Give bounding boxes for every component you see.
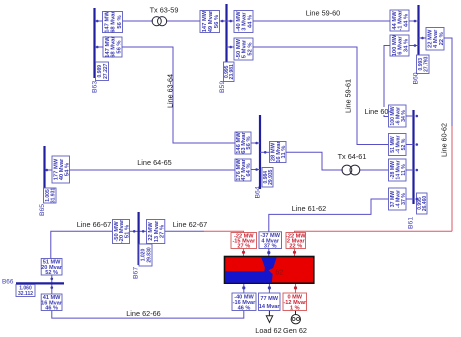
voltage box B67 (1.020 29.830) xyxy=(139,244,152,266)
svg-text:23.981: 23.981 xyxy=(229,64,235,80)
svg-text:51 %: 51 % xyxy=(125,225,131,238)
svg-text:B63: B63 xyxy=(92,81,99,93)
svg-text:Tx 64-61: Tx 64-61 xyxy=(338,152,367,161)
wire B64 stub upper xyxy=(251,142,260,144)
field B60 line 60-61 (100 MW 6 Mvar 34%) xyxy=(390,35,409,56)
svg-text:Line 62-66: Line 62-66 xyxy=(126,309,161,318)
field B64 line 64-65 (176 MW 47 Mvar 64%) xyxy=(235,159,251,181)
svg-text:32.112: 32.112 xyxy=(18,291,33,297)
svg-text:56 %: 56 % xyxy=(117,15,123,28)
node B63 upper xyxy=(96,20,99,23)
wire Line 59-61 xyxy=(253,47,389,145)
field B59 line 59-60 (-40 MW 3 Mvar 44%) xyxy=(234,11,253,33)
wire Tx 63-59 left segment xyxy=(123,20,154,22)
wire Line 64-65 xyxy=(70,169,236,171)
voltage box B61 (0.995 26.460) xyxy=(417,193,428,214)
wire B59 stub left xyxy=(220,20,227,22)
svg-text:52 %: 52 % xyxy=(248,42,254,55)
voltage box B65 (1.005 31.931) xyxy=(44,188,57,203)
svg-text:Load 62: Load 62 xyxy=(255,326,281,335)
svg-text:54 %: 54 % xyxy=(64,163,70,176)
svg-text:B61: B61 xyxy=(408,217,415,229)
wire B59 stub right lower xyxy=(227,46,235,48)
transformer Tx 64-61 xyxy=(342,165,352,175)
node B61 3 xyxy=(416,169,419,172)
field B61 tx side (-28 MW 14 Mvar 11%) xyxy=(389,159,407,181)
node B61 4 xyxy=(416,198,419,201)
wire Line 62-67 blue part xyxy=(165,230,204,232)
wire B67 left stub xyxy=(130,230,139,232)
svg-text:44 %: 44 % xyxy=(248,15,254,28)
bus 62 blue flow top wedge xyxy=(261,257,276,267)
wire bus62 field1 to bus62 xyxy=(243,249,245,257)
node B59 right upper xyxy=(229,20,232,23)
bus 62 red chevron notch xyxy=(269,266,277,278)
wire B60 stub upper xyxy=(409,20,419,22)
field gen 62 (0 MW -12 Mvar 1%) xyxy=(283,293,307,311)
node B59 right lower xyxy=(229,46,232,49)
svg-text:27 %: 27 % xyxy=(160,225,166,238)
wire B61 stub 3 xyxy=(406,169,414,171)
svg-text:22 %: 22 % xyxy=(289,244,302,250)
field B64 line 63-64 (146 MW 63 Mvar 56%) xyxy=(235,132,251,154)
bus B66 xyxy=(16,282,64,284)
wire B66 field1 to bus xyxy=(51,275,53,283)
bus B63 xyxy=(93,8,95,78)
field B59 line 59-61 (-50 MW 5 Mvar 52%) xyxy=(234,38,253,60)
node B67 right xyxy=(142,230,145,233)
bus B59 xyxy=(225,4,227,80)
node B64 upper xyxy=(255,142,258,145)
wire Tx 64-61 to B61 xyxy=(359,169,389,171)
field B63 line1 (147 MW 68 Mvar 56%) xyxy=(103,12,123,33)
svg-text:62: 62 xyxy=(275,268,283,277)
svg-text:52 %: 52 % xyxy=(45,270,58,276)
bus B67 xyxy=(138,212,140,265)
voltage box B64 (0.984 29.935) xyxy=(262,168,273,188)
field load 62 (77 MW 14 Mvar) xyxy=(259,293,281,311)
field B67 line 62-67 (22 MW 13 Mvar 27%) xyxy=(147,220,165,244)
node B60 left upper xyxy=(414,20,417,23)
bus 62 blue flow vertical band xyxy=(263,267,273,282)
bus B60 xyxy=(417,5,419,73)
wire B63 stub lower xyxy=(96,46,104,48)
svg-text:77 MW: 77 MW xyxy=(260,296,278,302)
voltage box B63 (0.989 27.227) xyxy=(96,62,109,81)
wire B60 stub lower xyxy=(409,45,419,47)
wire B61 stub 1 xyxy=(406,115,414,117)
transformer Tx 63-59 xyxy=(152,17,161,26)
wire bus62 to fieldA xyxy=(243,284,245,294)
svg-text:B64: B64 xyxy=(255,186,262,198)
node B64 right xyxy=(264,151,267,154)
wire Line 60-62 upper blue xyxy=(444,38,452,126)
field B66 line 62-66 (41 MW 16 Mvar 46%) xyxy=(41,294,62,311)
wire bus62 to fieldB xyxy=(268,284,270,294)
svg-text:B59: B59 xyxy=(219,81,226,93)
field B63 line2 (147 MW 68 Mvar 56%) xyxy=(103,37,122,57)
wire B67 right stub xyxy=(139,230,147,232)
field B64 tx side (28 MW 16 Mvar 11%) xyxy=(270,142,287,163)
svg-text:11 %: 11 % xyxy=(281,146,287,159)
wire fieldC to gen xyxy=(295,311,297,315)
svg-text:44 %: 44 % xyxy=(404,14,410,27)
svg-text:1 %: 1 % xyxy=(290,305,300,311)
node bus62 top2 xyxy=(267,251,270,254)
wire B64 to Tx 64-61 xyxy=(286,152,343,170)
wire B59 stub right upper xyxy=(227,20,235,22)
field bus62 line 61-62 (-37 MW 4 Mvar 37%) xyxy=(259,232,282,249)
wire Line 63-64 xyxy=(122,47,235,143)
node bus62 bottom3 xyxy=(294,286,297,289)
node B64 lower xyxy=(255,168,258,171)
svg-text:Line 64-65: Line 64-65 xyxy=(137,158,172,167)
svg-text:27.793: 27.793 xyxy=(424,56,430,72)
wire B61 stub 2 xyxy=(406,144,414,146)
svg-text:37 %: 37 % xyxy=(401,193,407,205)
svg-text:Gen 62: Gen 62 xyxy=(283,326,307,335)
field bus62 line 60-62 (-22 MW 2 Mvar 22%) xyxy=(286,233,306,249)
wire B64 stub lower xyxy=(251,169,260,171)
wire B66 bus to field2 xyxy=(51,283,53,294)
bus 62 blue flow bottom band xyxy=(225,271,266,283)
svg-text:Line 60-: Line 60- xyxy=(365,107,392,116)
label Line 60- xyxy=(364,107,388,115)
svg-text:56 %: 56 % xyxy=(214,15,220,28)
node B59 left xyxy=(221,20,224,23)
svg-text:14 Mvar: 14 Mvar xyxy=(259,304,281,310)
node B66 upper xyxy=(51,278,54,281)
svg-text:46 %: 46 % xyxy=(45,305,58,311)
wire Tx 63-59 right segment xyxy=(166,20,200,22)
svg-text:Line 59-60: Line 59-60 xyxy=(306,9,341,18)
svg-text:Line 59-61: Line 59-61 xyxy=(344,79,353,113)
svg-text:Line 62-67: Line 62-67 xyxy=(173,220,208,229)
node B66 lower xyxy=(51,286,54,289)
svg-text:29.830: 29.830 xyxy=(147,247,153,263)
svg-text:34 %: 34 % xyxy=(401,110,407,122)
svg-text:27 %: 27 % xyxy=(237,244,250,250)
field B65 line 64-65 (177 MW 40 Mvar 54%) xyxy=(52,156,70,183)
wire Line 62-67 red part xyxy=(204,231,244,232)
svg-text:B60: B60 xyxy=(412,72,419,84)
wire Line 66-67 xyxy=(51,231,113,258)
node B63 lower xyxy=(96,46,99,49)
bus B61 xyxy=(412,110,414,204)
field B60 line 59-60 (44 MW -1 Mvar 44%) xyxy=(390,10,409,31)
node bus62 top3 xyxy=(293,251,296,254)
svg-text:49 Mvar: 49 Mvar xyxy=(208,10,214,32)
svg-text:46 %: 46 % xyxy=(238,305,251,311)
node B67 left xyxy=(133,230,136,233)
voltage box B66 (1.060 32.112) xyxy=(16,285,35,297)
wire Line 59-60 xyxy=(253,20,390,22)
field bus62 line 62-66 (-40 MW -16 Mvar 46%) xyxy=(232,293,256,311)
generator 62 symbol xyxy=(291,315,300,324)
bus 62 rectangle xyxy=(225,257,314,284)
voltage box B60 (0.993 27.793) xyxy=(417,55,430,74)
field B60 line 60-62 (22 MW 4 Mvar 22%) xyxy=(426,28,444,51)
wire bus62 to fieldC xyxy=(295,284,297,294)
node B65 xyxy=(46,169,49,172)
wire B63 stub upper xyxy=(96,20,104,22)
field B61 line 59-61 (51 MW -4 Mvar 52%) xyxy=(389,134,407,156)
svg-text:37 %: 37 % xyxy=(264,243,277,249)
field B61 line 61-62 (37 MW -4 Mvar 37%) xyxy=(389,188,407,210)
wire B64 stub right xyxy=(260,151,270,153)
wire B65 stub xyxy=(45,169,53,171)
node B60 left lower xyxy=(414,44,417,47)
node bus62 top1 xyxy=(242,251,245,254)
svg-text:B66: B66 xyxy=(2,279,14,286)
svg-text:B65: B65 xyxy=(39,204,46,216)
wire Line 60-62 lower red segment xyxy=(451,126,453,231)
svg-text:22 %: 22 % xyxy=(439,32,445,45)
wire Line 60-62 lower red xyxy=(295,231,453,233)
svg-text:56 %: 56 % xyxy=(117,40,123,53)
wire bus62 field2 to bus62 xyxy=(268,249,270,257)
node bus62 bottom1 xyxy=(242,286,245,289)
svg-text:Line 61-62: Line 61-62 xyxy=(292,204,327,213)
svg-text:31.931: 31.931 xyxy=(51,188,57,204)
node bus62 bottom2 xyxy=(268,286,271,289)
voltage box B59 (0.995 23.981) xyxy=(224,62,235,82)
svg-text:26.460: 26.460 xyxy=(422,196,428,212)
svg-text:29.935: 29.935 xyxy=(268,169,274,185)
node B60 right xyxy=(421,37,424,40)
svg-text:27.227: 27.227 xyxy=(103,63,109,79)
svg-text:Line 66-67: Line 66-67 xyxy=(77,220,112,229)
svg-text:Tx 63-59: Tx 63-59 xyxy=(150,6,179,15)
svg-text:Line 63-64: Line 63-64 xyxy=(166,74,175,108)
svg-text:B67: B67 xyxy=(133,267,140,279)
svg-text:147 MW: 147 MW xyxy=(202,10,208,32)
svg-text:52 %: 52 % xyxy=(401,138,407,150)
bus B64 xyxy=(259,115,261,189)
svg-text:Line 60-62: Line 60-62 xyxy=(440,123,449,157)
load 62 arrow xyxy=(266,316,272,323)
svg-text:34 %: 34 % xyxy=(404,39,410,52)
wire bus62 field3 to bus62 xyxy=(294,249,296,257)
wire Line 62-66 xyxy=(52,311,244,319)
node B61 2 xyxy=(416,143,419,146)
field B61 line 60-61 (100 MW -6 Mvar 34%) xyxy=(389,105,407,127)
field bus62 line 62-67 (-22 MW -15 Mvar 27%) xyxy=(231,233,257,249)
wire Line 60-61 xyxy=(384,46,390,117)
field B67 line 66-67 (-50 MW -20 Mvar 51%) xyxy=(113,220,130,244)
wire Line 61-62 xyxy=(269,199,389,232)
wire B60 stub right xyxy=(419,37,427,39)
bus B65 xyxy=(43,146,45,190)
field B66 line 66-67 (51 MW 20 Mvar 52%) xyxy=(41,259,62,276)
svg-text:11 %: 11 % xyxy=(401,164,407,176)
svg-text:147 MW: 147 MW xyxy=(105,11,111,33)
wire B61 stub 4 xyxy=(406,198,414,200)
wire fieldB to load xyxy=(268,311,270,316)
node B61 1 xyxy=(416,115,419,118)
field B59 tx side (147 MW 49 Mvar 56%) xyxy=(200,11,220,33)
svg-text:68 Mvar: 68 Mvar xyxy=(111,10,117,32)
